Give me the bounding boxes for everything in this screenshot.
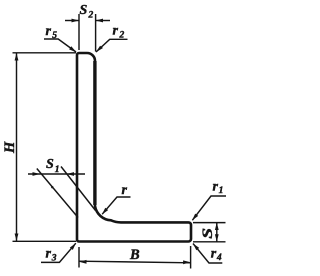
- svg-text:3: 3: [51, 253, 57, 263]
- svg-text:r: r: [122, 183, 128, 198]
- svg-text:S: S: [46, 157, 54, 172]
- svg-text:r: r: [46, 247, 52, 262]
- svg-text:S: S: [80, 3, 88, 18]
- svg-text:1: 1: [55, 165, 60, 175]
- svg-text:r: r: [46, 24, 52, 39]
- svg-text:r: r: [211, 247, 217, 262]
- svg-text:r: r: [113, 24, 119, 39]
- svg-text:5: 5: [52, 31, 57, 41]
- svg-text:2: 2: [119, 30, 125, 40]
- svg-text:S: S: [199, 228, 215, 239]
- svg-text:H: H: [2, 141, 18, 154]
- svg-text:4: 4: [216, 253, 222, 263]
- svg-text:r: r: [213, 180, 219, 195]
- svg-text:1: 1: [219, 186, 224, 196]
- svg-text:B: B: [129, 247, 140, 263]
- svg-text:2: 2: [88, 10, 94, 20]
